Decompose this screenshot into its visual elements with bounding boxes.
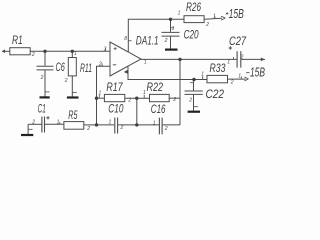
svg-text:2: 2 — [205, 22, 209, 28]
svg-text:R26: R26 — [186, 0, 201, 14]
svg-text:1: 1 — [153, 120, 156, 126]
svg-text:1: 1 — [143, 90, 146, 96]
svg-text:2: 2 — [188, 97, 192, 103]
svg-text:1: 1 — [172, 26, 175, 32]
svg-text:1: 1 — [227, 60, 230, 66]
svg-text:2: 2 — [230, 80, 234, 86]
svg-text:R22: R22 — [147, 80, 164, 94]
svg-text:2: 2 — [40, 75, 44, 81]
svg-text:2: 2 — [127, 98, 131, 104]
svg-text:C1: C1 — [38, 102, 46, 116]
svg-text:3: 3 — [104, 46, 107, 52]
svg-text:15B: 15B — [250, 66, 265, 80]
svg-text:2: 2 — [164, 38, 168, 44]
svg-text:R5: R5 — [68, 108, 77, 122]
svg-text:15B: 15B — [229, 7, 244, 21]
svg-text:1: 1 — [178, 10, 181, 16]
svg-text:1: 1 — [99, 90, 102, 96]
svg-text:2: 2 — [31, 52, 35, 58]
svg-text:C16: C16 — [151, 102, 166, 116]
svg-text:DA1.1: DA1.1 — [136, 33, 159, 47]
svg-text:1: 1 — [213, 14, 216, 20]
svg-text:C10: C10 — [108, 102, 123, 116]
svg-text:C6: C6 — [56, 60, 65, 74]
svg-text:1: 1 — [144, 60, 147, 66]
svg-text:R33: R33 — [210, 61, 226, 75]
svg-text:2: 2 — [240, 54, 244, 60]
svg-text:R17: R17 — [106, 80, 123, 94]
svg-text:2: 2 — [172, 97, 176, 103]
svg-text:C20: C20 — [184, 28, 199, 42]
svg-text:1: 1 — [109, 120, 112, 126]
svg-text:C27: C27 — [229, 34, 247, 48]
svg-text:1: 1 — [201, 71, 204, 77]
svg-text:2: 2 — [164, 126, 168, 132]
svg-text:2: 2 — [31, 119, 35, 125]
svg-text:1: 1 — [238, 74, 241, 80]
svg-text:R1: R1 — [12, 33, 23, 47]
svg-text:2: 2 — [120, 125, 124, 131]
svg-text:8: 8 — [124, 36, 127, 42]
svg-text:2: 2 — [98, 61, 102, 67]
svg-text:1: 1 — [74, 51, 77, 57]
svg-text:C22: C22 — [206, 87, 225, 101]
svg-text:1: 1 — [57, 119, 60, 125]
svg-text:R11: R11 — [80, 61, 92, 75]
svg-text:2: 2 — [64, 78, 68, 84]
svg-text:2: 2 — [86, 126, 90, 132]
